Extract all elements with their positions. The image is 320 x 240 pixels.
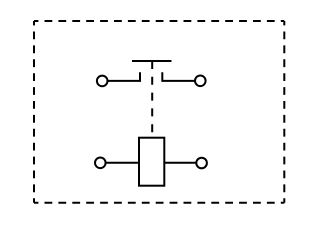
coil terminal circle bottom-right	[196, 158, 207, 169]
wire: bottom-left terminal to coil	[106, 162, 139, 164]
relay coil K1	[139, 138, 164, 186]
dashed enclosure border: left side	[33, 21, 35, 203]
contact terminal circle top-left	[97, 76, 108, 87]
contact S1 movable bar	[132, 60, 172, 62]
dashed enclosure border: top side	[34, 20, 284, 22]
dashed enclosure border: right side	[283, 21, 285, 203]
coil terminal circle bottom-left	[95, 158, 106, 169]
mechanical link (dashed) between bar and coil	[151, 61, 153, 132]
dashed enclosure border: bottom side	[34, 202, 284, 204]
contact terminal circle top-right	[195, 76, 206, 87]
wire: coil to bottom-right terminal	[164, 162, 196, 164]
wire: top-left terminal to left fixed contact stub	[108, 72, 141, 81]
wire: top-right terminal to right fixed contact stub	[162, 72, 195, 81]
